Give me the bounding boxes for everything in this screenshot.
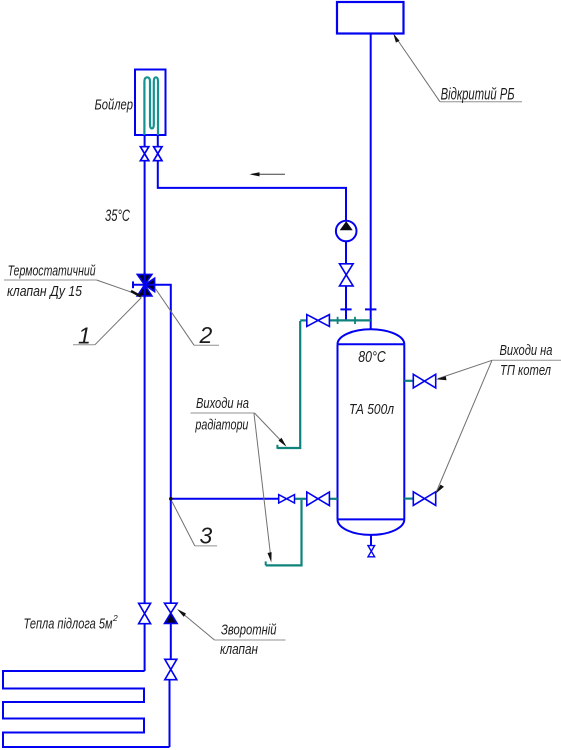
wire: riser from expansion tank down to accumulator top	[370, 34, 372, 330]
teal segment between valves on middle pipe	[295, 498, 308, 500]
label 1 with leader	[73, 298, 142, 349]
svg-text:ТА 500л: ТА 500л	[349, 402, 394, 418]
wire: floor supply valve down to serpentine	[144, 624, 146, 671]
boiler	[135, 70, 166, 136]
svg-text:2: 2	[112, 613, 118, 623]
pump	[336, 221, 357, 242]
valve V9 on floor supply line	[139, 603, 151, 623]
wire: boiler right valve down then right then down to pump	[158, 158, 346, 222]
tick at radiator supply hook end	[276, 445, 278, 449]
accumulator tank TA 500l	[338, 329, 405, 535]
flange tick on pump line	[340, 308, 351, 310]
wire: pump to valve	[345, 241, 347, 264]
flow direction arrow	[250, 172, 286, 176]
valve V2 below boiler right	[154, 147, 162, 161]
drain stem at tank bottom	[370, 535, 372, 546]
teal header pipe to accumulator top	[300, 319, 371, 321]
svg-text:радіатори: радіатори	[195, 418, 249, 434]
check valve (zvorotniy klapan)	[165, 603, 178, 623]
svg-text:2: 2	[199, 322, 213, 348]
label Zvorotniy klapan with leader arrow	[177, 609, 286, 658]
wire: middle pipe from junction to tank (blue part)	[171, 498, 279, 500]
flange tick on riser	[365, 308, 376, 310]
union tick 1 on teal header	[337, 317, 339, 324]
label 3 with leader	[172, 502, 217, 549]
wire: boiler right outlet to valve	[157, 135, 159, 150]
svg-text:Виходи на: Виходи на	[196, 396, 249, 412]
valve V7 small on middle pipe	[279, 495, 295, 503]
valve V6 bottom right port	[413, 492, 435, 506]
junction dot	[169, 497, 173, 501]
three-way thermostatic valve	[133, 272, 156, 298]
svg-text:80°С: 80°С	[358, 349, 386, 366]
svg-text:Бойлер: Бойлер	[95, 97, 134, 114]
valve V4 on teal header	[307, 315, 330, 327]
drain valve	[368, 546, 375, 557]
wire: left main line from boiler valve down to 3-way valve	[144, 158, 146, 277]
svg-text:Тепла підлога 5м: Тепла підлога 5м	[24, 617, 113, 633]
svg-text:клапан: клапан	[220, 642, 258, 658]
teal segment valve to tank on middle pipe	[330, 498, 338, 500]
teal stub to top right port	[404, 380, 414, 382]
wire: check valve to floor return valve	[170, 623, 172, 659]
wire: 3-way valve right port over and down to junction and check valve	[155, 285, 171, 603]
svg-text:клапан Ду 15: клапан Ду 15	[7, 284, 83, 300]
valve V3 below pump	[340, 264, 354, 286]
label Thermostatic valve Du 15 with leader	[4, 264, 141, 301]
wire: floor return valve down to serpentine end	[169, 680, 171, 747]
radiator return drop pipe (teal) with hook	[266, 500, 302, 566]
label Vykhody na radiatory with two leader arrows	[191, 396, 287, 562]
svg-text:ТП котел: ТП котел	[500, 363, 551, 379]
tick at radiator return hook end	[265, 561, 267, 565]
label Vykhody na TP kotel with two leader arrows	[436, 343, 561, 494]
valve V5 top right port	[413, 374, 435, 388]
open expansion tank RB	[337, 2, 404, 34]
valve V1 below boiler left	[140, 147, 148, 161]
boiler heating coil	[144, 77, 158, 135]
label Vidkrytyi RB with leader arrow	[393, 34, 522, 104]
teal stub to bottom right port	[404, 498, 414, 500]
wire: boiler left outlet to valve	[144, 135, 146, 150]
radiator supply drop pipe (teal) with hook	[277, 321, 300, 448]
svg-text:35°С: 35°С	[105, 206, 130, 225]
union tick 2 on teal header	[354, 317, 356, 324]
valve V10 on floor return line	[165, 659, 177, 679]
valve V8 large on middle pipe	[307, 492, 330, 506]
wire: left main from 3-way valve down to floor valve	[144, 296, 146, 604]
svg-text:Термостатичний: Термостатичний	[8, 264, 96, 280]
svg-text:3: 3	[200, 523, 213, 549]
wire: valve V3 down to teal header	[345, 286, 347, 320]
svg-text:Виходи на: Виходи на	[500, 343, 553, 359]
svg-text:1: 1	[78, 323, 91, 349]
svg-text:Відкритий РБ: Відкритий РБ	[441, 85, 515, 103]
floor heating serpentine coil	[3, 671, 170, 747]
svg-text:Зворотній: Зворотній	[221, 623, 277, 639]
label 2 with leader	[155, 288, 219, 348]
